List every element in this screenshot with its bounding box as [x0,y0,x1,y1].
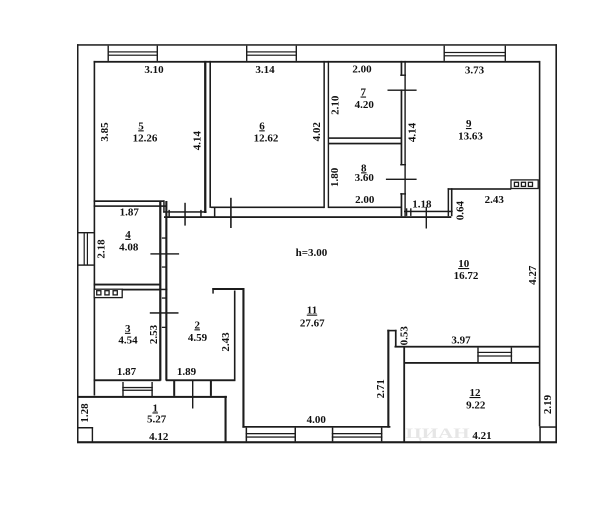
svg-text:3.73: 3.73 [465,64,485,76]
window W1 room 5 [108,46,109,61]
room 4 right wall line 1 [159,201,161,381]
outer wall bottom [77,441,557,443]
svg-text:4.20: 4.20 [355,99,375,111]
svg-text:4.00: 4.00 [307,414,327,426]
room 6 bottom wall [211,207,324,209]
svg-text:4.14: 4.14 [192,130,204,150]
svg-text:4.59: 4.59 [188,332,208,344]
svg-text:12.26: 12.26 [133,132,158,144]
bottom wall inner line room 11 [242,426,390,428]
svg-text:2.00: 2.00 [352,64,372,76]
outer wall right [555,44,557,443]
room 10 bottom wall 3.97 [395,346,540,348]
window W3 room 9 [444,46,445,61]
room 9 step wall vertical 0.64 line 2 [451,188,453,216]
svg-text:4: 4 [125,229,131,241]
door gap room 8 [400,165,402,193]
room 11 hook downturn [212,288,214,294]
door jamb room 2 right [210,381,212,396]
window W5 room 11 bottom left [246,428,248,442]
door line room 5 [184,203,186,226]
door line rooms 3-2 [150,312,179,314]
svg-text:2.18: 2.18 [95,239,107,259]
room 4 wall cavity dash 2 [162,266,166,267]
svg-text:1.87: 1.87 [117,366,137,378]
door line room 4 [150,253,179,254]
door line room 7 [388,90,417,91]
partition rooms 7-8 line 1 [329,137,401,139]
room 1 right wall [225,396,227,442]
bottom-left wall notch top [77,427,93,429]
hook vertical wall 0.53 [395,330,397,347]
bottom-right wall notch top [539,426,556,428]
svg-text:27.67: 27.67 [300,317,325,329]
svg-text:1.87: 1.87 [120,207,140,219]
svg-text:ЦИАН: ЦИАН [406,426,471,442]
svg-text:16.72: 16.72 [454,270,479,282]
svg-text:3: 3 [125,323,131,335]
svg-text:12.62: 12.62 [254,132,279,144]
outer wall top [77,44,557,46]
partition rooms 5-6 line 2 [209,61,211,208]
room 4 top wall [94,205,167,207]
svg-text:4.21: 4.21 [472,430,491,442]
door jamb 1.18 left a [406,208,407,216]
svg-text:0.64: 0.64 [455,200,467,220]
partition rooms 7-8 line 2 [329,143,401,145]
svg-text:2: 2 [194,319,200,331]
door jamb 1.18 left b [410,208,411,216]
vent box room 3 [94,289,122,297]
room 1 top wall [77,396,227,398]
outer wall left [77,44,79,443]
room 11 left wall hook top [212,288,244,290]
svg-text:3.60: 3.60 [355,172,375,184]
svg-text:4.12: 4.12 [149,431,169,443]
corridor top wall room 11 [164,216,451,218]
partition 3-2 top cap [159,289,168,291]
svg-text:10: 10 [458,258,470,270]
svg-text:0.53: 0.53 [399,326,411,346]
svg-text:1.80: 1.80 [329,167,341,187]
door jamb room 2 left [173,381,175,396]
door tick corridor [230,198,232,228]
room 12 left wall [403,346,405,442]
door jamb room 5 left [168,210,170,217]
svg-text:4.08: 4.08 [119,242,139,254]
door jamb room 6 [214,207,216,217]
svg-text:1.18: 1.18 [412,198,432,210]
room 4 wall cavity dash 1 [162,237,166,238]
svg-text:h=3.00: h=3.00 [296,247,328,259]
bottom-right wall notch left [539,426,541,442]
room 12 top wall [404,362,540,364]
bottom-left wall notch right [92,427,93,442]
door dash room 8 upper [400,164,406,165]
room 9 bottom step wall [448,188,512,190]
door gap room 7 [400,76,402,90]
room 4 bottom wall [94,284,161,286]
vent box room 9 [511,180,538,189]
svg-text:12: 12 [470,387,482,399]
right wall inner line [539,61,541,426]
wall line A below room 5 [163,211,206,213]
svg-text:2.43: 2.43 [485,194,505,206]
room 9 step wall vertical 0.64 line 1 [448,188,450,216]
partition rooms 7-9 line 1 [401,61,403,216]
door dash room 7 [400,75,406,76]
svg-text:7: 7 [361,87,367,99]
room 5 bottom wall [94,200,165,202]
door line room 2 [192,381,193,409]
hook top wall 0.53 [387,330,396,332]
svg-text:2.00: 2.00 [355,194,375,206]
svg-text:2.10: 2.10 [330,95,342,115]
svg-text:3.85: 3.85 [99,122,111,142]
svg-text:2.19: 2.19 [542,394,554,414]
svg-text:6: 6 [259,120,265,132]
room 5 step down wall [163,200,165,212]
door dash room 8 lower [400,193,406,194]
svg-text:11: 11 [307,305,317,317]
svg-text:3.97: 3.97 [451,334,471,346]
room 2 bottom wall [166,379,235,381]
room 8 bottom wall [329,207,401,209]
room 4 right wall line 2 [165,201,167,381]
window W6 room 11 bottom right [332,428,334,442]
partition rooms 6-7 line 1 [323,61,325,208]
partition rooms 7-9 line 2 [404,61,405,216]
room 3 bottom wall [94,379,161,381]
top wall inner line [94,61,540,63]
svg-text:9: 9 [466,118,472,130]
svg-text:2.43: 2.43 [220,332,232,352]
partition 3-2 cavity dash lower [162,327,166,328]
vent box squares room 9 [514,182,518,186]
svg-text:4.54: 4.54 [118,334,138,346]
svg-text:1.28: 1.28 [79,403,91,423]
svg-text:4.02: 4.02 [311,122,323,142]
svg-text:13.63: 13.63 [458,130,483,142]
svg-text:4.14: 4.14 [407,122,419,142]
room 3 top wall [122,289,161,291]
partition 3-2 cavity dash [162,297,166,298]
svg-text:1: 1 [152,402,158,414]
partition rooms 5-6 line 1 [204,61,206,213]
svg-text:3.14: 3.14 [255,64,275,76]
window W2 room 6 [246,46,247,61]
door jamb room 5 right [200,210,202,217]
svg-text:4.27: 4.27 [527,265,539,285]
svg-text:2.71: 2.71 [375,379,387,398]
door line 1.18 opening [426,207,427,229]
left wall inner line [94,61,96,396]
wall 1.18 opening room 10 [404,211,453,213]
wall 2.71 room 11 right [387,330,389,428]
window W4 room 4 left wall [78,232,94,233]
svg-text:5: 5 [138,120,144,132]
door line room 8 [386,179,417,180]
vent box squares room 3 [97,291,101,295]
window W7 rooms 10-12 [477,348,478,363]
window W8 rooms 3-1 wall [122,382,123,396]
svg-text:5.27: 5.27 [147,414,167,426]
svg-text:3.10: 3.10 [144,64,164,76]
partition rooms 6-7 line 2 [328,61,329,208]
room 11 left wall line 1 [234,291,236,382]
svg-text:1.89: 1.89 [177,366,197,378]
room 11 left wall line 2 [242,288,244,428]
svg-text:2.53: 2.53 [148,324,160,344]
svg-text:9.22: 9.22 [466,399,486,411]
